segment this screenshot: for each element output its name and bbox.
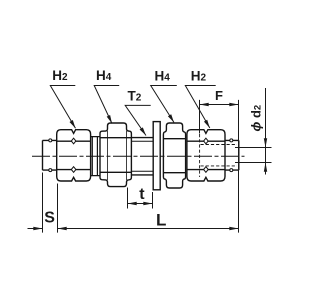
hex body corner edge lines: [108, 131, 127, 180]
nut left H2 outline: [57, 130, 91, 181]
leader H4 right: [151, 86, 177, 123]
collar: [91, 137, 100, 176]
panel nut H4 right: [163, 123, 185, 188]
hex body H4 left: [100, 123, 131, 187]
F extension line left (solid above nut): [199, 100, 201, 134]
dimension arrowheads: [33, 103, 267, 230]
leader arrowhead H4 left: [107, 115, 112, 124]
hidden tube end inside nut (dashed vertical): [199, 134, 201, 177]
thread T2 section: [131, 138, 153, 175]
F dimension line: [200, 104, 239, 106]
leader arrowhead H4 right: [168, 114, 174, 122]
left tube: [43, 140, 58, 170]
leader arrowhead T2: [140, 127, 146, 135]
nut left diamond top: [71, 138, 76, 144]
S extension line left: [42, 173, 44, 233]
nut right band lines: [187, 141, 225, 169]
t extension lines: [128, 188, 153, 209]
hidden tube walls inside nut (dashed): [201, 145, 238, 166]
leader H4 left: [94, 86, 119, 124]
F arrows: [200, 103, 209, 106]
nut left diamond bottom: [71, 167, 76, 173]
leader T2: [125, 105, 151, 135]
right tube circles: [230, 139, 233, 142]
L right arrow: [229, 227, 238, 230]
nut right diamond bottom: [204, 167, 209, 173]
nut right H2 outline: [187, 130, 225, 181]
panel nut band lines: [163, 139, 185, 173]
svg-text:t: t: [139, 186, 145, 203]
leader arrowhead H2 left: [70, 120, 76, 128]
right tube: [225, 140, 239, 170]
t dimension line: [128, 203, 153, 205]
S arrows (outside): [33, 227, 42, 230]
S dimension arrow tails: [28, 228, 43, 230]
centerline: [32, 155, 245, 157]
left tube end circles: [49, 139, 52, 142]
phi d2 arrows (outside, vertical): [264, 138, 267, 147]
leader H2 right: [185, 86, 215, 129]
L dimension line: [58, 228, 239, 230]
F extension right / L extension right: [238, 100, 240, 233]
thread root lines: [131, 141, 153, 171]
leader arrowhead H2 right: [204, 120, 210, 128]
phi d2 extension lines: [235, 148, 272, 163]
phi d2 dimension line: [265, 88, 267, 175]
t arrows: [128, 202, 137, 205]
svg-text:F: F: [215, 88, 223, 103]
leader H2 left: [50, 86, 75, 129]
svg-text:S: S: [44, 210, 55, 227]
S/L extension line: [57, 184, 59, 233]
nut left band lines: [57, 141, 91, 169]
hex body band lines: [100, 138, 131, 173]
svg-text:L: L: [156, 211, 166, 230]
washer flange: [153, 122, 160, 190]
nut right diamond top: [204, 138, 209, 144]
